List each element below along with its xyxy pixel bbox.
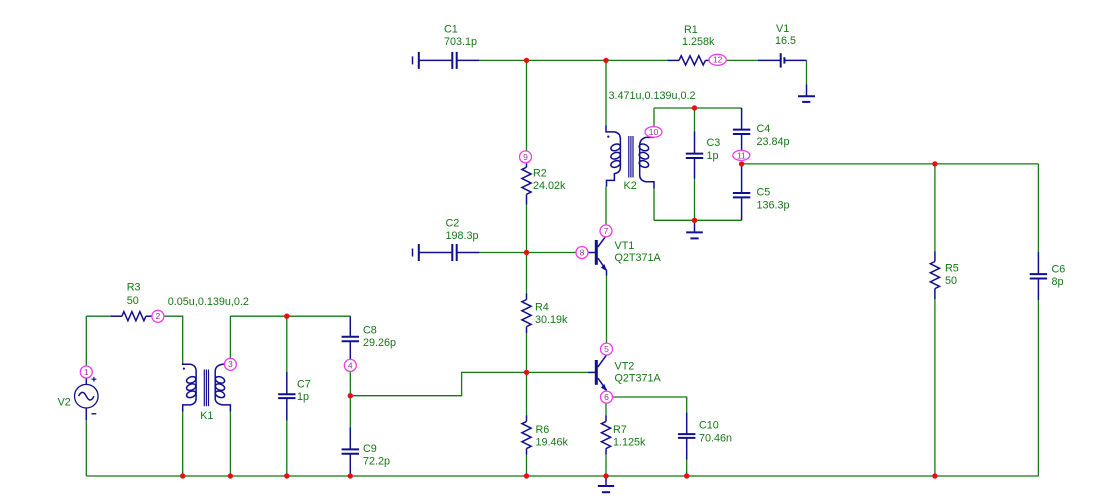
node 1 xyxy=(80,366,92,378)
svg-text:1p: 1p xyxy=(707,150,719,162)
resistor R2 xyxy=(522,163,531,205)
label VT1 xyxy=(615,240,662,264)
source V2 xyxy=(75,377,99,420)
label C10 xyxy=(699,420,732,445)
junction bottom R5 xyxy=(932,473,937,478)
svg-text:11: 11 xyxy=(737,150,746,160)
ground at V1 xyxy=(798,85,815,102)
capacitor C7 xyxy=(278,372,295,421)
svg-text:C8: C8 xyxy=(363,325,377,337)
wire R6 bottom lead xyxy=(526,455,528,477)
svg-text:R3: R3 xyxy=(127,281,141,293)
svg-text:C10: C10 xyxy=(699,420,719,432)
transistor VT2 xyxy=(588,355,607,392)
wire K2 right leg bottom xyxy=(653,189,655,221)
svg-text:1.125k: 1.125k xyxy=(613,437,646,449)
junction tank bottom xyxy=(692,218,697,223)
capacitor C10 xyxy=(678,412,695,459)
capacitor C3 xyxy=(686,131,703,179)
label C5 xyxy=(757,187,790,212)
svg-text:8: 8 xyxy=(580,247,585,257)
label C4 xyxy=(757,123,790,148)
junction VT2 base xyxy=(524,370,529,375)
svg-text:R4: R4 xyxy=(535,302,549,314)
svg-text:V2: V2 xyxy=(58,397,71,409)
svg-text:3: 3 xyxy=(228,359,233,369)
junction top rail left xyxy=(524,58,529,63)
svg-text:C4: C4 xyxy=(757,123,771,135)
resistor R1 xyxy=(667,56,709,65)
label VT2 xyxy=(615,360,662,384)
wire R6 top lead xyxy=(526,372,528,415)
transistor VT1 xyxy=(588,235,607,276)
svg-text:R7: R7 xyxy=(613,424,627,436)
resistor R7 xyxy=(601,416,610,455)
svg-text:C3: C3 xyxy=(707,137,721,149)
wire R2 bottom lead xyxy=(526,205,528,253)
wire C3 bottom lead xyxy=(694,179,696,221)
wire tank loop top rail xyxy=(654,107,742,109)
svg-text:0.05u,0.139u,0.2: 0.05u,0.139u,0.2 xyxy=(168,296,249,308)
node 2 xyxy=(152,310,164,322)
wire bottom rail xyxy=(86,475,1038,477)
svg-text:6: 6 xyxy=(604,392,609,402)
wire node6 down to R7 xyxy=(605,403,607,416)
svg-text:50: 50 xyxy=(945,275,957,287)
label R3 xyxy=(127,281,141,307)
wire C8 C9 middle xyxy=(349,372,351,427)
wire C3 top lead xyxy=(694,108,696,131)
svg-text:50: 50 xyxy=(127,295,139,307)
svg-text:VT1: VT1 xyxy=(615,240,635,252)
wire node12 to V1 xyxy=(727,59,758,61)
wire node2 to K1 corner xyxy=(164,316,183,363)
junction node11 xyxy=(739,161,744,166)
svg-text:V1: V1 xyxy=(776,23,789,35)
node 3 xyxy=(224,358,236,370)
svg-text:1p: 1p xyxy=(297,391,309,403)
junction bottom C7 xyxy=(284,473,289,478)
label C9 xyxy=(363,443,390,468)
node 6 xyxy=(601,391,613,403)
junction bottom K1 left xyxy=(180,473,185,478)
wire top junction down to K2 primary xyxy=(605,60,607,125)
svg-text:C1: C1 xyxy=(444,23,458,35)
capacitor C1 xyxy=(413,52,480,69)
svg-text:K1: K1 xyxy=(200,410,213,422)
capacitor C9 xyxy=(342,427,359,476)
svg-text:C9: C9 xyxy=(363,443,377,455)
resistor R6 xyxy=(522,416,531,455)
svg-text:R6: R6 xyxy=(536,424,550,436)
svg-text:3.471u,0.139u,0.2: 3.471u,0.139u,0.2 xyxy=(609,90,696,102)
wire K1 right leg bottom xyxy=(229,412,231,477)
resistor R4 xyxy=(522,294,531,334)
label C6 xyxy=(1052,263,1066,288)
node 7 xyxy=(600,225,612,237)
node 4 xyxy=(344,359,356,371)
wire V2 to R3 xyxy=(86,315,110,317)
wire output loop right vertical top xyxy=(1037,164,1039,252)
svg-text:Q2T371A: Q2T371A xyxy=(615,252,662,264)
wire node3 up xyxy=(229,316,231,358)
wire tank loop top left corner xyxy=(653,108,655,127)
junction bottom R7 xyxy=(603,473,608,478)
wire tank loop bottom rail xyxy=(654,219,742,221)
svg-text:703.1p: 703.1p xyxy=(444,36,477,48)
capacitor C8 xyxy=(342,316,359,359)
label C1 xyxy=(444,23,477,48)
junction R5 top xyxy=(932,161,937,166)
svg-text:C5: C5 xyxy=(757,187,771,199)
junction bottom C9 xyxy=(348,473,353,478)
svg-text:VT2: VT2 xyxy=(615,360,635,372)
svg-text:8p: 8p xyxy=(1052,276,1064,288)
svg-text:29.26p: 29.26p xyxy=(363,337,396,349)
svg-text:C7: C7 xyxy=(297,379,311,391)
label R6 xyxy=(536,424,569,449)
junction bottom C10 xyxy=(684,473,689,478)
wire C7 top lead xyxy=(286,316,288,372)
label C2 xyxy=(446,218,479,243)
junction tank top xyxy=(692,105,697,110)
wire node 11 to output loop xyxy=(742,163,1039,165)
wire VT1 emitter to node5 xyxy=(606,276,608,343)
svg-text:136.3p: 136.3p xyxy=(757,199,790,211)
capacitor C4 xyxy=(733,108,750,151)
wire V1 to ground corner xyxy=(806,60,808,84)
wire R5 top lead xyxy=(934,164,936,252)
label C7 xyxy=(297,379,311,404)
svg-text:16.5: 16.5 xyxy=(775,35,796,47)
svg-text:R5: R5 xyxy=(945,263,959,275)
svg-text:C6: C6 xyxy=(1052,263,1066,275)
svg-text:30.19k: 30.19k xyxy=(535,314,568,326)
svg-text:R1: R1 xyxy=(684,24,698,36)
svg-text:K2: K2 xyxy=(624,180,637,192)
svg-text:4: 4 xyxy=(348,360,353,370)
transformer K1 xyxy=(183,363,231,412)
junction C7 top xyxy=(284,314,289,319)
svg-text:1.258k: 1.258k xyxy=(682,36,715,48)
svg-text:70.46n: 70.46n xyxy=(699,432,732,444)
wire C10 bottom lead xyxy=(686,460,688,476)
wire node4 to VT2 base xyxy=(350,372,588,395)
wire top rail C1 to R1 xyxy=(479,59,667,61)
wire R4 top lead xyxy=(526,253,528,294)
node 8 xyxy=(576,247,588,259)
resistor R5 xyxy=(930,251,939,299)
node 5 xyxy=(601,343,613,355)
junction bottom R6 xyxy=(524,473,529,478)
wire K1 secondary rail xyxy=(230,315,350,317)
label R4 xyxy=(535,302,568,327)
wire node6 to C10 xyxy=(612,397,687,412)
wire C2 rail xyxy=(479,252,588,254)
capacitor C6 xyxy=(1030,252,1047,300)
wire top junction down to R2 xyxy=(526,60,528,151)
wire C7 bottom lead xyxy=(286,421,288,477)
wire C6 bottom lead xyxy=(1037,300,1039,476)
svg-text:19.46k: 19.46k xyxy=(536,437,569,449)
label R5 xyxy=(945,263,959,288)
junction top rail right xyxy=(603,58,608,63)
svg-text:198.3p: 198.3p xyxy=(446,230,479,242)
wire R7 bottom lead xyxy=(605,455,607,477)
node 9 xyxy=(520,151,532,163)
svg-text:12: 12 xyxy=(713,55,723,65)
junction C2 rail xyxy=(524,250,529,255)
label V1 xyxy=(775,23,796,47)
wire R4 bottom lead xyxy=(526,333,528,372)
svg-text:2: 2 xyxy=(156,311,161,321)
svg-text:1: 1 xyxy=(84,367,89,377)
svg-text:23.84p: 23.84p xyxy=(757,136,790,148)
label C3 xyxy=(707,137,721,162)
wire V2 top xyxy=(85,316,87,366)
svg-text:C2: C2 xyxy=(446,218,460,230)
label R1 xyxy=(682,24,715,48)
wire V2 bottom xyxy=(85,420,87,476)
battery V1 xyxy=(758,53,807,67)
junction node4 wire xyxy=(348,393,353,398)
wire K2 secondary bottom to node 7 xyxy=(605,187,607,226)
label R2 xyxy=(533,167,566,192)
svg-text:Q2T371A: Q2T371A xyxy=(615,373,662,385)
resistor R3 xyxy=(110,312,152,321)
node 12 xyxy=(709,54,726,65)
ground at R7 xyxy=(598,476,614,492)
label R7 xyxy=(613,424,646,449)
svg-text:R2: R2 xyxy=(533,167,547,179)
svg-text:5: 5 xyxy=(604,344,609,354)
wire K1 left leg bottom xyxy=(182,412,184,477)
node 10 xyxy=(645,127,662,138)
junction bottom K1 right xyxy=(228,473,233,478)
label C8 xyxy=(363,325,396,350)
wire R5 bottom lead xyxy=(934,299,936,476)
capacitor C5 xyxy=(733,164,750,220)
svg-text:9: 9 xyxy=(523,152,528,162)
ground at tank loop xyxy=(686,220,703,238)
svg-text:24.02k: 24.02k xyxy=(533,180,566,192)
transformer K2 xyxy=(606,125,654,188)
svg-text:10: 10 xyxy=(649,127,659,137)
capacitor C2 xyxy=(413,244,480,261)
node 11 xyxy=(733,150,750,160)
svg-text:7: 7 xyxy=(604,226,609,236)
svg-text:72.2p: 72.2p xyxy=(363,456,390,468)
